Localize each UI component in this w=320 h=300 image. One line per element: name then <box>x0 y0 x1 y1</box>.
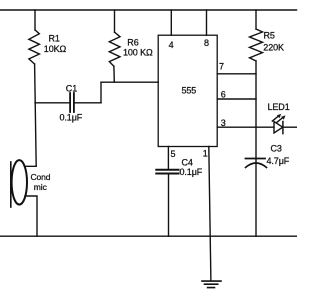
svg-text:5: 5 <box>171 149 176 159</box>
resistor R1 <box>29 30 40 64</box>
wire R6 bottom lead <box>113 66 115 82</box>
capacitor C4 <box>156 170 178 174</box>
svg-text:4.7μF: 4.7μF <box>267 156 290 166</box>
wire R1 top lead <box>34 10 36 30</box>
wire C1 right lead <box>74 102 101 104</box>
resistor R5 <box>250 29 263 61</box>
LED LED1 emission arrow 2 <box>277 118 283 123</box>
wire pin 7 lead <box>217 73 256 75</box>
wire pin 4 lead <box>170 10 172 35</box>
wire R5 bottom to C3 <box>255 61 257 158</box>
capacitor C3 top plate <box>246 158 266 160</box>
wire pin 1 lead to ground <box>209 147 211 281</box>
svg-text:3: 3 <box>221 118 226 128</box>
wire R5 top lead <box>255 10 257 29</box>
LED LED1 arrowhead 1 <box>277 114 281 118</box>
wire pin 6 lead <box>217 98 256 100</box>
wire R6 top lead <box>114 10 116 32</box>
svg-text:10KΩ: 10KΩ <box>44 44 67 54</box>
IC U1 555 timer body <box>158 35 217 146</box>
svg-text:0.1μF: 0.1μF <box>180 167 203 177</box>
wire bottom ground rail <box>0 235 296 237</box>
capacitor C1 <box>70 93 74 112</box>
svg-text:7: 7 <box>219 62 224 72</box>
svg-text:1: 1 <box>203 149 208 159</box>
svg-text:R5: R5 <box>264 31 275 41</box>
wire R1 bottom to C1 junction and mic <box>25 64 37 166</box>
svg-text:LED1: LED1 <box>268 102 290 112</box>
svg-text:220K: 220K <box>263 42 284 52</box>
wire pin 5 lead <box>167 147 169 170</box>
wire C1 riser <box>100 82 102 103</box>
wire C3 bottom lead <box>255 159 257 237</box>
svg-text:0.1μF: 0.1μF <box>60 113 83 123</box>
condenser microphone body <box>12 160 27 204</box>
LED LED1 cathode bar <box>282 122 284 134</box>
svg-text:R1: R1 <box>49 34 60 44</box>
ground symbol <box>202 281 221 288</box>
wire C4 bottom lead <box>168 174 170 237</box>
svg-text:R6: R6 <box>127 38 138 48</box>
resistor R6 <box>109 32 120 66</box>
capacitor C3 curved plate <box>246 163 267 168</box>
wire LED cathode lead <box>283 126 296 128</box>
svg-text:4: 4 <box>169 40 174 50</box>
svg-text:C3: C3 <box>271 144 282 154</box>
svg-text:6: 6 <box>221 89 226 99</box>
svg-text:8: 8 <box>204 38 209 48</box>
wire pin 8 lead <box>206 10 208 35</box>
LED LED1 emission arrow 1 <box>272 116 278 121</box>
svg-text:C1: C1 <box>66 84 77 94</box>
wire mic bottom to ground rail <box>25 196 37 236</box>
svg-text:mic: mic <box>34 182 48 192</box>
svg-text:100 KΩ: 100 KΩ <box>123 48 153 58</box>
wire top supply rail <box>0 9 297 11</box>
LED LED1 arrowhead 2 <box>281 115 285 119</box>
wire pin2 net horizontal <box>101 81 158 83</box>
condenser microphone diaphragm bar <box>10 162 12 207</box>
svg-text:Cond: Cond <box>31 172 51 182</box>
wire pin 3 lead <box>217 126 274 128</box>
wire C1 left lead <box>35 102 70 104</box>
LED LED1 triangle <box>274 122 283 134</box>
svg-text:555: 555 <box>182 86 197 96</box>
svg-text:C4: C4 <box>182 158 193 168</box>
